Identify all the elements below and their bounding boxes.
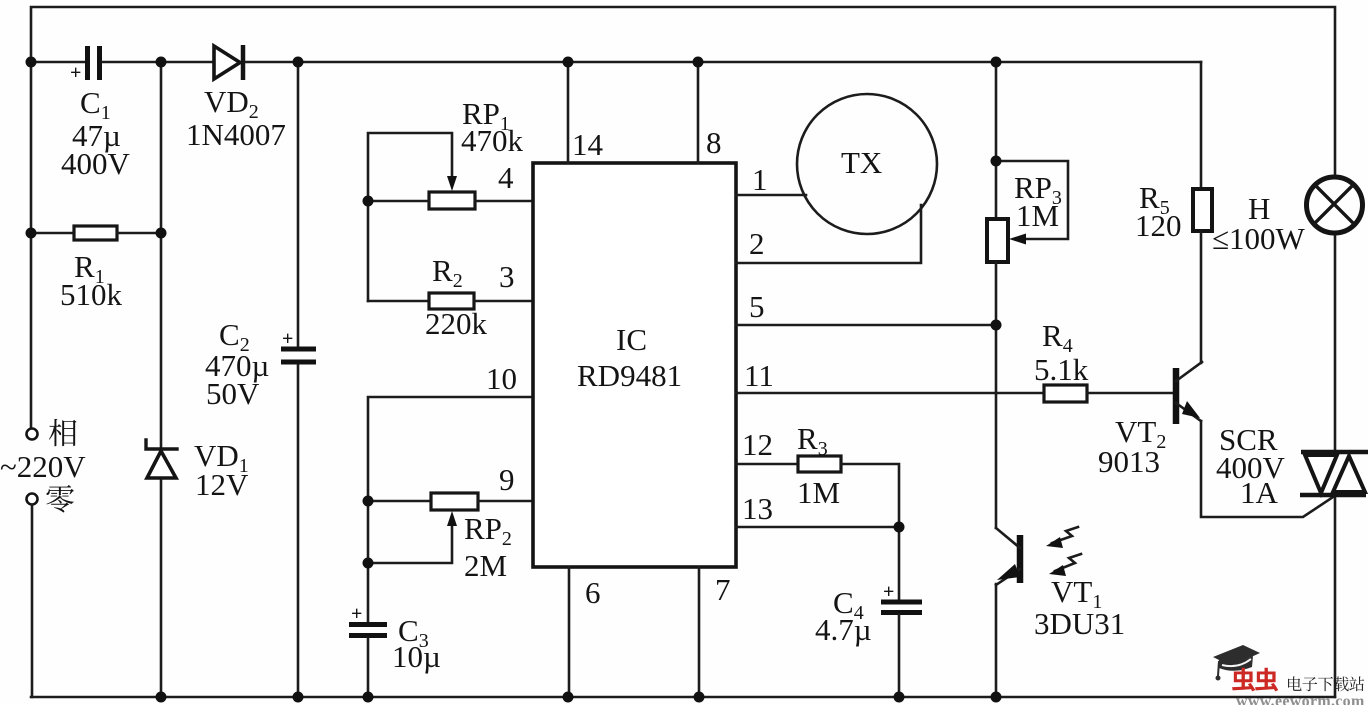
svg-text:10µ: 10µ [392,639,441,674]
svg-text:5.1k: 5.1k [1034,352,1089,387]
lamp H cross [1315,185,1354,224]
svg-text:+: + [883,581,894,603]
wire: IC pin 8 lead from rail [697,62,700,163]
triac top bar MT [1301,450,1368,455]
wire: IC pin 11 lead to R4 [736,392,1044,395]
svg-text:9013: 9013 [1098,444,1160,479]
resistor R5 [1193,189,1212,231]
svg-text:+: + [282,328,293,350]
svg-text:9: 9 [499,462,515,497]
svg-text:RD9481: RD9481 [577,358,682,393]
wire: left vertical line down to phase terminal [30,62,33,428]
triac bottom bar MT [1300,493,1366,498]
wire: RP2 right terminal to IC pin 9 [478,500,533,503]
IC U1 RD9481 body [533,163,736,567]
svg-text:3DU31: 3DU31 [1034,606,1125,641]
svg-text:1M: 1M [1016,198,1059,233]
wire: IC pin 10 lead going left and down [368,397,533,501]
wire: vertical line x=298 rail to C2 [297,62,300,347]
wire: IC pin 5 lead to RP3 bottom node [736,324,996,327]
capacitor C1 plates [85,46,90,80]
VT1 light arrow 1 [1052,527,1078,543]
label 相 [49,419,77,446]
wire: R2 right terminal to IC pin 3 [474,300,533,303]
phototransistor VT1 base bar [1017,535,1024,583]
svg-text:2M: 2M [464,548,507,583]
resistor R2 [429,293,474,309]
wire: VT2 emitter down, right, diagonal to triac gate [1201,421,1333,517]
wire: IC pin 13 lead to node [736,526,899,529]
transistor VT2 base bar [1173,368,1180,424]
svg-text:5: 5 [749,289,765,324]
triac right triangle [1333,456,1365,492]
watermark 虫虫 red text [1232,668,1278,692]
svg-text:4.7µ: 4.7µ [815,612,872,647]
svg-text:6: 6 [585,575,601,610]
wire: R3 right around corner down to pin13 node [841,464,899,527]
wire: IC pin 12 lead to R3 [736,463,798,466]
capacitor C3 plates [349,622,387,627]
junction dot RP1 node [363,196,374,207]
svg-text:12V: 12V [195,467,249,502]
wire: left vertical from neutral terminal to bottom rail [31,505,34,697]
wire: right vertical from triac to bottom rail [1334,495,1337,697]
svg-text:13: 13 [742,491,773,526]
wire: top border rail from left corner to right corner [31,7,1335,176]
junction dots on +V rail [26,57,37,68]
wire: IC pin 14 lead from rail [567,62,570,163]
svg-text:+: + [70,62,81,84]
junction dot pin5 node [991,320,1002,331]
resistor R3 [798,456,841,472]
wire: R5 down to VT2 collector [1200,231,1203,363]
resistor R1 [74,226,117,240]
junction dot RP2 node [363,496,374,507]
svg-text:50V: 50V [206,376,260,411]
wire: RP3 bottom to pin5 node [995,262,998,325]
svg-text:14: 14 [572,127,604,162]
potentiometer RP2 body [431,493,478,510]
node: neutral input terminal 零 [27,494,38,505]
VT1 emitter arrowhead [997,564,1020,580]
VT1 collector lead [996,528,1020,548]
wire: IC pin 1 lead to transducer TX [736,194,806,197]
wire: RP1 right terminal to IC pin 4 [475,200,533,203]
svg-text:+: + [351,603,362,625]
wire: bottom ground rail [31,696,1335,699]
triac left triangle [1305,455,1337,493]
svg-text:TX: TX [841,145,882,180]
wire: R4 to VT2 base [1087,392,1174,395]
svg-text:IC: IC [616,322,647,357]
svg-text:www.eeworm.com: www.eeworm.com [1236,693,1365,705]
VT1 emitter lead [996,569,1020,585]
diode VD2 triangle [214,46,240,79]
label 零 [46,485,74,512]
svg-text:11: 11 [744,358,774,393]
svg-text:10: 10 [486,361,517,396]
wire: IC pin 2 lead and TX bottom lead [736,205,921,263]
svg-text:400V: 400V [61,146,131,181]
wire: RP2 wiper lead down then left to node [368,518,452,563]
capacitor C2 plates [281,347,316,352]
VT2 collector lead [1176,362,1202,381]
wire: RP3 wiper loop [996,161,1068,239]
wire: from R1 left node to resistor [31,232,74,235]
wire: vertical line x=298 from C2 to bottom rail [297,365,300,697]
wire: R1 to x=161 vertical [117,232,161,235]
potentiometer RP1 body [429,192,475,209]
wire: corner from +V rail down to R5 [1200,62,1203,189]
junction dots on R1 wire [26,228,37,239]
svg-text:~220V: ~220V [0,449,86,484]
zener diode VD1 triangle [147,451,176,478]
wire: C3 to bottom rail [367,638,370,697]
resistor R4 [1044,385,1087,402]
junction dot R3 pin13 node [894,522,905,533]
VT2 emitter arrowhead [1182,401,1200,418]
RP2 wiper arrowhead [447,511,457,526]
VT2 emitter lead [1176,403,1201,421]
VT1 light arrow 1 head [1046,537,1063,548]
svg-text:1N4007: 1N4007 [186,117,286,152]
wire: node to RP2 left terminal [368,500,431,503]
svg-text:120: 120 [1135,208,1182,243]
wire: C4 to bottom rail [898,615,901,697]
wire: RP1 wiper loop up and over [368,133,452,201]
VT1 light arrow 2 [1055,554,1081,571]
lamp H circle [1307,177,1363,233]
svg-text:470k: 470k [461,123,524,158]
watermark 电子下载站 [1288,676,1364,691]
svg-text:2: 2 [749,226,765,261]
RP3 wiper arrowhead [1009,234,1026,245]
RP1 wiper arrowhead [447,176,457,191]
wire: right vertical from lamp to triac [1334,232,1337,452]
wire: +V rail segment left of C1 [31,61,85,64]
junction dot RP3 top node [991,156,1002,167]
wire: node to RP1 left terminal [368,200,429,203]
transducer TX circle [797,94,937,234]
svg-text:1M: 1M [797,475,840,510]
wire: IC pin 7 lead to bottom rail [698,567,701,697]
svg-text:4: 4 [498,160,514,195]
svg-text:220k: 220k [425,306,488,341]
wire: VT1 emitter down to bottom rail [995,584,998,697]
wire: vertical from pin5 node down to VT1 collector [995,325,998,528]
diode VD2 cathode bar [241,45,246,80]
wire: to R2 left terminal [368,300,429,303]
wire: node down to C4 [898,527,901,599]
wire: rail from VD2 to corner above R5 [245,61,1201,64]
junction dot RP2 wiper node [363,558,374,569]
svg-text:7: 7 [715,572,731,607]
svg-text:≤100W: ≤100W [1212,221,1306,256]
wire: rail between C1 and VD2 [102,61,215,64]
junction dots on bottom rail [156,692,167,703]
wire: vertical x=368 between RP1 node and R2 wire [367,201,370,301]
svg-text:510k: 510k [60,277,123,312]
watermark graduation cap icon [1213,645,1260,681]
svg-text:1: 1 [752,162,768,197]
potentiometer RP3 body [987,219,1008,262]
wire: RP3 feed from top rail [995,62,998,219]
wire: vertical line x=161 from rail through VD1 to bottom [160,62,163,697]
wire: vertical x=368 from RP2 node down to C3 [367,501,370,622]
zener diode VD1 cathode bar with tick [146,440,177,449]
wire: IC pin 6 lead to bottom rail [568,567,571,697]
svg-text:8: 8 [706,125,722,160]
VT1 light arrow 2 head [1049,565,1066,576]
capacitor C4 plates [881,600,922,605]
svg-text:1A: 1A [1240,475,1279,510]
svg-text:3: 3 [499,259,515,294]
node: phase input terminal 相 [27,429,38,440]
svg-text:12: 12 [742,427,773,462]
